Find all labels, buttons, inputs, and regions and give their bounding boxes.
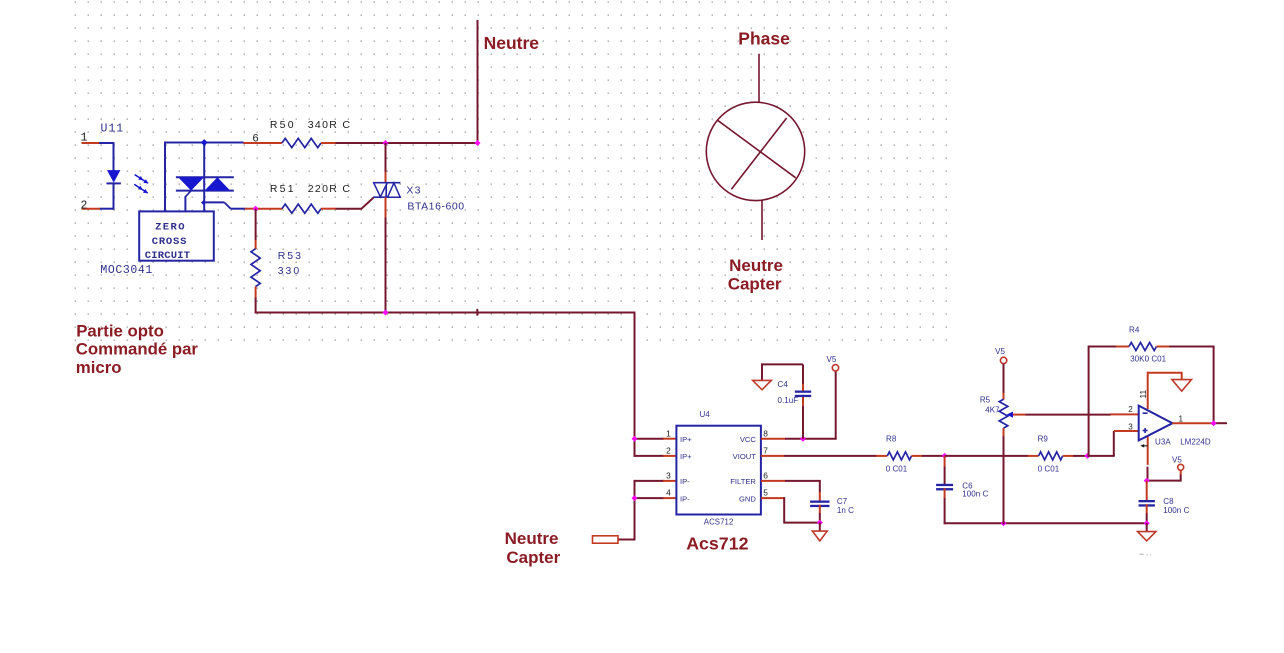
svg-text:U11: U11 — [101, 123, 125, 136]
svg-text:7: 7 — [763, 446, 768, 456]
svg-text:R51: R51 — [270, 183, 296, 195]
svg-text:C7: C7 — [837, 497, 848, 506]
svg-text:Capter: Capter — [506, 548, 560, 567]
svg-text:Phase: Phase — [738, 29, 790, 49]
svg-text:4K7: 4K7 — [985, 406, 1000, 415]
svg-text:340R C: 340R C — [308, 119, 351, 131]
svg-text:1: 1 — [81, 132, 88, 145]
svg-text:C4: C4 — [778, 380, 789, 389]
svg-text:IP+: IP+ — [680, 435, 692, 444]
svg-text:11: 11 — [1138, 389, 1148, 398]
svg-text:R50: R50 — [270, 119, 296, 131]
svg-text:ZERO: ZERO — [155, 222, 186, 234]
svg-text:VCC: VCC — [740, 435, 757, 444]
svg-text:0 C01: 0 C01 — [886, 465, 908, 474]
svg-text:IP-: IP- — [680, 494, 690, 503]
svg-text:1: 1 — [1179, 414, 1184, 423]
svg-text:R4: R4 — [1129, 325, 1140, 334]
svg-text:0 C01: 0 C01 — [1038, 465, 1060, 474]
svg-text:1n C: 1n C — [837, 506, 854, 515]
svg-text:R9: R9 — [1038, 435, 1049, 444]
svg-text:Acs712: Acs712 — [686, 534, 748, 554]
svg-text:ACS712: ACS712 — [704, 518, 734, 527]
svg-text:330: 330 — [278, 265, 302, 277]
svg-text:100n C: 100n C — [962, 490, 988, 499]
svg-text:VIOUT: VIOUT — [733, 452, 757, 461]
svg-text:V5: V5 — [1172, 456, 1182, 465]
svg-text:2: 2 — [81, 200, 88, 213]
svg-text:V5: V5 — [995, 347, 1005, 356]
svg-text:Neutre: Neutre — [729, 256, 783, 275]
svg-text:BTA16-600: BTA16-600 — [407, 200, 464, 212]
svg-text:U3A: U3A — [1155, 438, 1171, 447]
svg-text:R5: R5 — [980, 395, 991, 404]
svg-text:3: 3 — [1128, 423, 1133, 432]
svg-text:Partie opto: Partie opto — [76, 322, 164, 341]
svg-text:X3: X3 — [406, 184, 421, 196]
svg-text:2: 2 — [666, 446, 671, 456]
svg-text:1: 1 — [666, 428, 671, 438]
svg-text:6: 6 — [252, 133, 258, 145]
svg-text:GND: GND — [739, 494, 756, 503]
svg-text:Commandé par: Commandé par — [76, 340, 199, 359]
svg-text:R8: R8 — [886, 435, 897, 444]
svg-text:6: 6 — [763, 471, 768, 481]
svg-text:MOC3041: MOC3041 — [100, 264, 153, 277]
svg-text:0.1uF: 0.1uF — [778, 396, 799, 405]
svg-text:C8: C8 — [1163, 497, 1174, 506]
svg-text:Capter: Capter — [728, 275, 782, 294]
svg-text:2: 2 — [1128, 405, 1133, 414]
svg-text:3: 3 — [666, 471, 671, 481]
svg-text:R53: R53 — [278, 250, 303, 262]
svg-text:IP+: IP+ — [680, 452, 692, 461]
svg-text:100n C: 100n C — [1163, 506, 1189, 515]
svg-text:LM224D: LM224D — [1180, 438, 1211, 447]
svg-text:CIRCUIT: CIRCUIT — [145, 250, 191, 262]
svg-text:Neutre: Neutre — [484, 33, 540, 53]
svg-text:4: 4 — [666, 488, 671, 498]
svg-text:V5: V5 — [827, 355, 837, 364]
svg-text:30K0 C01: 30K0 C01 — [1130, 355, 1166, 364]
svg-text:5: 5 — [763, 488, 768, 498]
svg-text:220R C: 220R C — [308, 183, 351, 195]
svg-text:micro: micro — [76, 358, 122, 377]
svg-text:IP-: IP- — [680, 477, 690, 486]
svg-text:CROSS: CROSS — [152, 236, 188, 248]
svg-text:8: 8 — [763, 428, 768, 438]
svg-text:FILTER: FILTER — [730, 477, 756, 486]
svg-text:Neutre: Neutre — [505, 529, 559, 548]
svg-text:U4: U4 — [700, 410, 711, 419]
